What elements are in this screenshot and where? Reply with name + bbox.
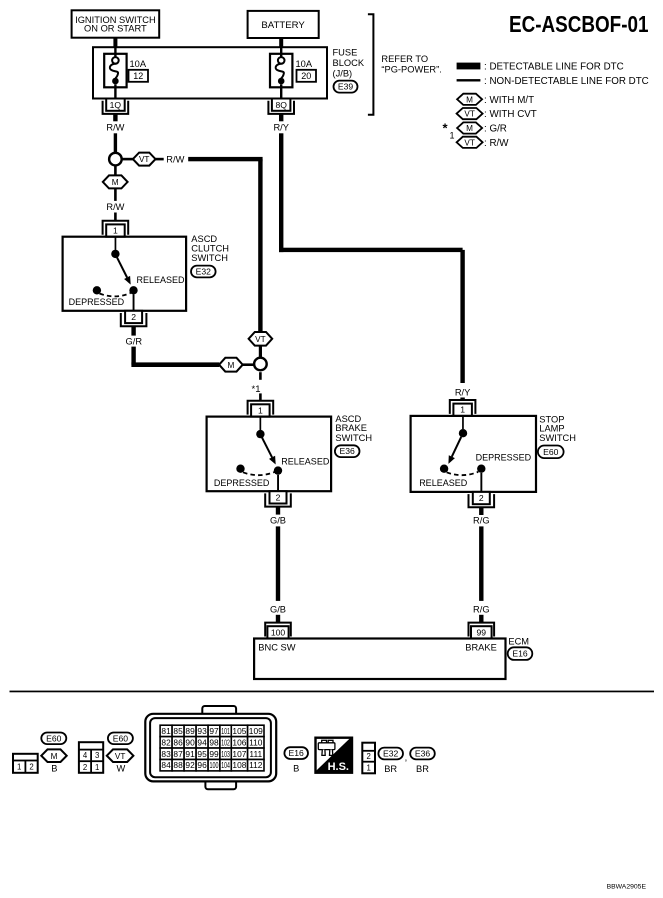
svg-text:2: 2 <box>276 493 281 503</box>
svg-text:VT: VT <box>115 752 125 761</box>
svg-text:1: 1 <box>95 763 99 772</box>
svg-text:85: 85 <box>173 726 183 736</box>
svg-text:R/W: R/W <box>166 154 184 164</box>
svg-text:E36: E36 <box>415 749 431 759</box>
svg-text:101: 101 <box>221 726 230 736</box>
svg-text:M: M <box>227 361 234 370</box>
svg-text:G/B: G/B <box>270 605 286 615</box>
svg-text:91: 91 <box>185 749 195 759</box>
svg-text:97: 97 <box>209 726 219 736</box>
svg-text:93: 93 <box>197 726 207 736</box>
svg-text:: WITH CVT: : WITH CVT <box>484 109 537 120</box>
svg-text:86: 86 <box>173 737 183 747</box>
svg-text:10A: 10A <box>296 59 313 69</box>
svg-text:106: 106 <box>232 737 246 747</box>
svg-text:SWITCH: SWITCH <box>335 433 372 443</box>
svg-text:8Q: 8Q <box>275 100 287 110</box>
svg-text:90: 90 <box>185 737 195 747</box>
svg-text:84: 84 <box>161 760 171 770</box>
svg-text:87: 87 <box>173 749 183 759</box>
svg-text:E36: E36 <box>340 446 356 456</box>
svg-text:3: 3 <box>95 751 99 760</box>
svg-text:BNC SW: BNC SW <box>258 643 295 653</box>
svg-text:ON OR START: ON OR START <box>84 24 147 34</box>
svg-text:VT: VT <box>464 138 474 147</box>
svg-text:102: 102 <box>221 737 230 747</box>
svg-text:ASCD: ASCD <box>191 234 217 244</box>
svg-text:E60: E60 <box>46 733 62 743</box>
svg-text:G/B: G/B <box>270 516 286 526</box>
svg-text:92: 92 <box>185 760 195 770</box>
svg-text:89: 89 <box>185 726 195 736</box>
svg-text:: NON-DETECTABLE LINE FOR DTC: : NON-DETECTABLE LINE FOR DTC <box>484 76 649 87</box>
svg-text:M: M <box>112 178 119 187</box>
svg-text:E16: E16 <box>512 649 528 659</box>
svg-text:REFER TO: REFER TO <box>381 54 428 64</box>
svg-text:G/R: G/R <box>126 336 143 346</box>
svg-text:10A: 10A <box>130 59 147 69</box>
svg-text:108: 108 <box>232 760 246 770</box>
svg-text:111: 111 <box>249 749 262 759</box>
svg-text:: G/R: : G/R <box>484 124 507 135</box>
svg-text:E60: E60 <box>113 733 129 743</box>
svg-text:VT: VT <box>139 155 149 164</box>
svg-text:,: , <box>405 753 408 763</box>
svg-text:100: 100 <box>271 627 286 637</box>
svg-text:100: 100 <box>210 760 219 770</box>
svg-text:W: W <box>117 764 126 774</box>
svg-text:RELEASED: RELEASED <box>281 456 330 466</box>
svg-text:4: 4 <box>83 751 88 760</box>
svg-text:R/G: R/G <box>473 605 490 615</box>
svg-text:R/W: R/W <box>106 202 124 212</box>
svg-text:*1: *1 <box>252 384 261 395</box>
svg-text:M: M <box>466 124 473 133</box>
svg-text:BR: BR <box>384 764 397 774</box>
svg-text:R/Y: R/Y <box>455 387 471 397</box>
svg-text:2: 2 <box>29 763 33 772</box>
svg-text:R/Y: R/Y <box>273 123 289 133</box>
svg-text:R/G: R/G <box>473 515 490 525</box>
svg-text:M: M <box>466 95 473 104</box>
svg-text:E16: E16 <box>289 748 305 758</box>
svg-text:“PG-POWER”.: “PG-POWER”. <box>381 64 441 74</box>
svg-text:112: 112 <box>249 760 263 770</box>
svg-text:B: B <box>293 764 299 774</box>
svg-text:81: 81 <box>161 726 171 736</box>
svg-text:2: 2 <box>367 752 371 761</box>
svg-text:: R/W: : R/W <box>484 138 509 149</box>
svg-text:1: 1 <box>17 763 21 772</box>
svg-text:104: 104 <box>221 760 230 770</box>
svg-text:1: 1 <box>113 226 118 236</box>
svg-text:CLUTCH: CLUTCH <box>191 244 229 254</box>
svg-text:E39: E39 <box>338 82 354 92</box>
svg-text:99: 99 <box>209 749 219 759</box>
svg-text:12: 12 <box>133 71 143 81</box>
svg-text:109: 109 <box>249 726 263 736</box>
svg-text:: WITH M/T: : WITH M/T <box>484 95 534 106</box>
svg-text:95: 95 <box>197 749 207 759</box>
svg-text:DEPRESSED: DEPRESSED <box>476 453 532 463</box>
svg-text:BLOCK: BLOCK <box>333 58 365 68</box>
svg-text:EC-ASCBOF-01: EC-ASCBOF-01 <box>509 11 649 37</box>
svg-text:M: M <box>51 752 58 761</box>
svg-text:(J/B): (J/B) <box>333 69 353 79</box>
svg-text:VT: VT <box>464 110 474 119</box>
svg-text:103: 103 <box>221 749 230 759</box>
svg-text:BR: BR <box>416 764 429 774</box>
svg-text:BBWA2905E: BBWA2905E <box>607 884 647 891</box>
svg-text:98: 98 <box>209 737 219 747</box>
svg-text:ECM: ECM <box>508 636 529 646</box>
svg-text:83: 83 <box>161 749 171 759</box>
svg-text:1: 1 <box>367 763 371 772</box>
svg-text:E32: E32 <box>196 267 212 277</box>
svg-text:: DETECTABLE LINE FOR DTC: : DETECTABLE LINE FOR DTC <box>484 62 624 73</box>
svg-text:R/W: R/W <box>106 123 124 133</box>
svg-text:E60: E60 <box>543 447 559 457</box>
svg-text:RELEASED: RELEASED <box>137 275 186 285</box>
svg-text:82: 82 <box>161 737 171 747</box>
svg-text:88: 88 <box>173 760 183 770</box>
svg-text:105: 105 <box>232 726 246 736</box>
svg-text:SWITCH: SWITCH <box>191 253 228 263</box>
svg-text:B: B <box>51 764 57 774</box>
svg-text:2: 2 <box>83 763 87 772</box>
svg-text:1Q: 1Q <box>110 100 122 110</box>
svg-text:RELEASED: RELEASED <box>419 478 468 488</box>
svg-text:1: 1 <box>258 405 263 415</box>
svg-text:DEPRESSED: DEPRESSED <box>214 478 270 488</box>
svg-text:94: 94 <box>197 737 207 747</box>
svg-text:H.S.: H.S. <box>328 761 349 773</box>
svg-text:96: 96 <box>197 760 207 770</box>
svg-text:2: 2 <box>479 493 484 503</box>
svg-text:E32: E32 <box>383 749 399 759</box>
svg-text:99: 99 <box>477 627 487 637</box>
svg-text:BRAKE: BRAKE <box>465 643 497 653</box>
svg-text:DEPRESSED: DEPRESSED <box>69 297 125 307</box>
svg-text:1: 1 <box>450 131 455 141</box>
svg-text:110: 110 <box>249 737 263 747</box>
svg-text:107: 107 <box>232 749 246 759</box>
svg-text:BRAKE: BRAKE <box>335 423 367 433</box>
svg-text:1: 1 <box>460 405 465 415</box>
svg-text:SWITCH: SWITCH <box>539 433 576 443</box>
svg-text:FUSE: FUSE <box>333 48 358 58</box>
svg-text:20: 20 <box>301 71 311 81</box>
svg-text:VT: VT <box>255 335 265 344</box>
svg-text:2: 2 <box>131 312 136 322</box>
svg-text:BATTERY: BATTERY <box>261 20 305 31</box>
